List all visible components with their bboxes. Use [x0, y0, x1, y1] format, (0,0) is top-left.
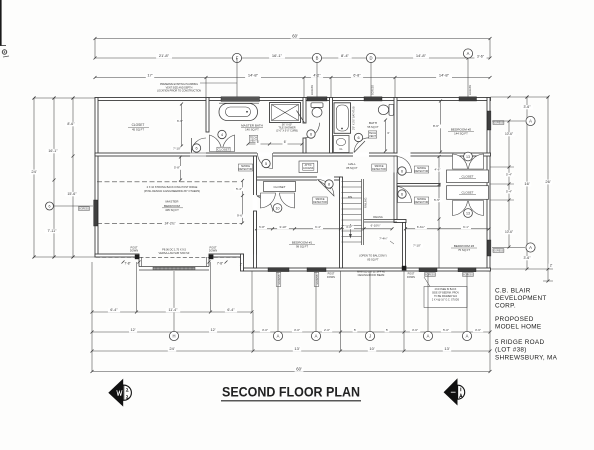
- window bottom bedroom1 E: [307, 268, 326, 272]
- bottom dim row B: [92, 331, 490, 333]
- left wall window: [94, 200, 98, 226]
- svg-text:3'0" X 5'0" BATHTUB: 3'0" X 5'0" BATHTUB: [353, 106, 356, 130]
- master bedroom dim 5-8 upper: [180, 157, 182, 180]
- egress label bottom b1W: [276, 272, 281, 286]
- svg-text:A: A: [466, 334, 469, 339]
- bedroom3 interior dim row: [406, 228, 490, 230]
- svg-text:DETECTOR: DETECTOR: [415, 201, 429, 204]
- leader row3 ticks to wall: [205, 78, 207, 98]
- master tub outer: [219, 104, 258, 121]
- window top D: [364, 97, 382, 101]
- smoke detector hall east: [372, 164, 386, 171]
- closet door arc from closet room: [192, 138, 207, 153]
- left dim connector bottom: [34, 256, 95, 258]
- bedroom3 west wall: [403, 223, 406, 269]
- svg-text:2': 2': [550, 264, 553, 268]
- bedroom1 east wall / stair wall: [340, 177, 343, 268]
- egress label right bedroom3: [493, 249, 504, 253]
- svg-text:16': 16': [524, 181, 529, 186]
- svg-text:6: 6: [401, 192, 403, 196]
- svg-text:60': 60': [296, 366, 302, 371]
- svg-text:ACCESS: ACCESS: [303, 167, 314, 170]
- svg-text:10'-6": 10'-6": [505, 132, 513, 136]
- svg-text:24'-2¾": 24'-2¾": [165, 222, 176, 226]
- svg-text:5'-5": 5'-5": [434, 198, 440, 202]
- svg-text:4'-6": 4'-6": [435, 167, 441, 171]
- master closet fan circle 4: [218, 130, 226, 138]
- svg-text:7'-8": 7'-8": [124, 262, 130, 266]
- svg-text:16'-1": 16'-1": [272, 53, 283, 58]
- svg-text:EGRESS: EGRESS: [372, 85, 375, 95]
- right closet dim connectors: [491, 166, 515, 168]
- post black square bedroom3 corner: [402, 266, 407, 271]
- bay window side left inner: [141, 257, 143, 267]
- svg-text:BEDROOM: BEDROOM: [164, 204, 180, 208]
- wc west divider wall upper: [303, 98, 306, 124]
- svg-text:8: 8: [328, 182, 330, 186]
- bedroom3 upper door circle 6: [398, 190, 406, 198]
- svg-text:(OPEN TO BALCONY): (OPEN TO BALCONY): [359, 254, 386, 258]
- bottom leader x403: [403, 271, 405, 351]
- bedroom1 closet label box: [264, 182, 296, 192]
- bay window front lines: [139, 266, 209, 268]
- svg-text:12': 12': [131, 328, 136, 332]
- svg-text:6'-4": 6'-4": [227, 308, 235, 312]
- hall bottom wall: [254, 177, 341, 180]
- stair right rail: [361, 179, 363, 245]
- svg-text:CLOSET: CLOSET: [217, 148, 229, 152]
- master wc toilet bowl: [312, 108, 322, 118]
- bedroom1 smoke detector: [313, 197, 327, 204]
- svg-text:144 SQ FT: 144 SQ FT: [454, 132, 468, 136]
- svg-text:MAIN (2) 2 X 12 SPF #2: MAIN (2) 2 X 12 SPF #2: [357, 270, 386, 274]
- bedroom1 closet fan doors: [261, 193, 276, 208]
- svg-text:3'-10": 3'-10": [279, 225, 286, 229]
- svg-text:CEILING/ROOF BEAM: CEILING/ROOF BEAM: [358, 273, 385, 277]
- right dim bottom connectors: [491, 268, 554, 270]
- svg-text:6: 6: [401, 169, 403, 173]
- svg-text:A: A: [315, 334, 318, 339]
- svg-text:99 SQ FT: 99 SQ FT: [296, 245, 308, 249]
- svg-text:C.B. BLAIR: C.B. BLAIR: [495, 288, 531, 295]
- row2 circle B: [312, 53, 321, 62]
- svg-text:24': 24': [169, 346, 174, 351]
- bottom leader x253 long: [252, 312, 254, 351]
- svg-text:3'-6": 3'-6": [524, 105, 532, 109]
- svg-text:6: 6: [310, 132, 312, 136]
- svg-text:15'-6": 15'-6": [67, 192, 77, 196]
- master closet fan doors: [210, 135, 222, 152]
- bottom leader bay center: [173, 271, 175, 332]
- master bedroom lower dashed dim: [97, 222, 242, 224]
- svg-text:3'-6": 3'-6": [477, 54, 485, 58]
- hall bath toilet bowl: [378, 105, 388, 115]
- bedroom1 west wall lower: [254, 211, 257, 268]
- svg-text:8'-6": 8'-6": [67, 122, 75, 126]
- exterior wall right: [487, 98, 490, 272]
- left dim 24ft: [33, 98, 35, 257]
- svg-text:EGRESS: EGRESS: [311, 85, 314, 95]
- window right bedroom2: [487, 111, 491, 130]
- svg-text:4'-2": 4'-2": [313, 74, 321, 78]
- bay window side right: [208, 257, 210, 267]
- svg-text:SHREWSBURY, MA: SHREWSBURY, MA: [495, 355, 558, 362]
- svg-text:VENT: VENT: [369, 134, 376, 138]
- bottom dim row D 60ft: [92, 371, 490, 373]
- svg-text:DOWN: DOWN: [407, 276, 415, 279]
- svg-text:A: A: [277, 334, 280, 339]
- row B circle A1: [273, 331, 282, 340]
- bay window side right inner: [206, 257, 208, 267]
- right dim connector top: [491, 96, 550, 98]
- svg-text:14'-8": 14'-8": [248, 73, 259, 78]
- svg-text:EGRESS: EGRESS: [425, 273, 435, 276]
- svg-text:EGRESS: EGRESS: [494, 121, 504, 124]
- bedroom1 entry door arc: [257, 196, 273, 212]
- bottom leader x340: [340, 271, 342, 351]
- svg-text:6': 6': [257, 140, 260, 144]
- svg-text:DETECTOR: DETECTOR: [415, 170, 429, 173]
- bedroom2 door arc: [398, 157, 412, 173]
- bottom leader b3 window W: [427, 273, 429, 332]
- svg-text:EGRESS: EGRESS: [316, 274, 319, 284]
- left dim col2: [53, 98, 55, 257]
- hall east wall: [394, 156, 397, 223]
- svg-text:A: A: [467, 51, 470, 56]
- row2 circle A: [463, 49, 472, 58]
- svg-text:13': 13': [444, 346, 449, 351]
- hall bath toilet tank: [389, 104, 394, 115]
- bedroom2 interior dim 8-6: [440, 101, 442, 152]
- hall bath tub drain: [341, 128, 343, 130]
- master wc toilet tank: [311, 103, 323, 108]
- window bottom bedroom3 W: [419, 268, 437, 272]
- svg-text:A: A: [529, 245, 532, 250]
- svg-text:3'-6": 3'-6": [475, 328, 481, 332]
- svg-text:14'-8": 14'-8": [439, 73, 450, 78]
- bottom leader x490: [489, 271, 491, 372]
- smoke detector SE room: [414, 197, 428, 204]
- svg-text:D: D: [369, 56, 372, 61]
- dim 5-5 SE room: [432, 198, 442, 202]
- smoke detector hall west: [238, 164, 252, 171]
- svg-text:(LOT #38): (LOT #38): [495, 347, 527, 354]
- svg-text:3'-0": 3'-0": [294, 328, 300, 332]
- left dim col3: [72, 98, 74, 257]
- svg-text:7'-10": 7'-10": [413, 243, 421, 247]
- svg-text:3'-6": 3'-6": [524, 256, 532, 260]
- row B circle A3: [423, 331, 432, 340]
- hall bath 6ft dim: [385, 120, 387, 151]
- master bedroom east dims: [242, 181, 244, 224]
- svg-text:A: A: [529, 119, 532, 124]
- right closet box 1: [447, 170, 489, 183]
- right circle A lower: [492, 247, 525, 249]
- mid horizontal wall (bath band bottom): [95, 153, 491, 156]
- svg-text:5: 5: [265, 162, 267, 166]
- smoke detector NE room: [414, 166, 428, 173]
- svg-text:LOCATION PRIOR TO CONSTRUCTION: LOCATION PRIOR TO CONSTRUCTION: [157, 90, 201, 93]
- master tub inner: [226, 107, 251, 117]
- master closet dim 6-6: [175, 120, 185, 124]
- bay window sash: [153, 267, 195, 270]
- post down left black square: [135, 255, 140, 260]
- svg-text:2'-0": 2'-0": [324, 328, 330, 332]
- tile shower X: [272, 105, 299, 121]
- svg-text:6'-4": 6'-4": [315, 225, 321, 229]
- svg-text:140 SQ FT: 140 SQ FT: [245, 128, 259, 132]
- svg-text:5 RIDGE ROAD: 5 RIDGE ROAD: [495, 339, 544, 346]
- exterior bottom wall: [244, 268, 491, 271]
- bottom leader b1 window E: [315, 272, 317, 332]
- leader row2 D to window: [370, 62, 372, 97]
- master bedroom ridge dashed line: [97, 181, 238, 183]
- svg-text:9'-6": 9'-6": [237, 214, 243, 218]
- tile shower outer: [270, 103, 301, 123]
- svg-text:RAILING: RAILING: [373, 216, 383, 219]
- row2 circle F: [232, 53, 241, 62]
- hall bath door circle 6: [354, 133, 362, 141]
- wall opening master closet door: [190, 152, 206, 157]
- master wc door circle 6: [307, 130, 315, 138]
- attic access box: [299, 161, 318, 173]
- closet door circle 6: [192, 144, 200, 152]
- svg-text:4: 4: [221, 133, 223, 137]
- svg-text:55 SQ FT: 55 SQ FT: [367, 125, 379, 129]
- svg-text:5'-4": 5'-4": [506, 189, 512, 193]
- svg-text:6'-8": 6'-8": [353, 74, 361, 78]
- bath east / bedroom2 west wall: [394, 98, 397, 154]
- row B circle A4: [462, 331, 471, 340]
- svg-text:3'-0": 3'-0": [262, 328, 268, 332]
- svg-text:6'-6¾": 6'-6¾": [417, 225, 425, 229]
- dim 7-10 near closet: [171, 147, 183, 151]
- bottom leader bay post E: [210, 262, 212, 312]
- svg-text:60': 60': [292, 33, 298, 38]
- svg-text:BATH: BATH: [369, 121, 377, 125]
- svg-text:13: 13: [466, 155, 470, 159]
- svg-text:14'-8": 14'-8": [416, 53, 427, 58]
- bedroom1 closet circle 10: [273, 204, 282, 213]
- wall opening hall door west: [257, 152, 273, 157]
- stair down arrow: [349, 224, 351, 237]
- svg-text:EGRESS: EGRESS: [494, 249, 504, 252]
- svg-text:VERSA-LAM SJB 7200 SF: VERSA-LAM SJB 7200 SF: [159, 251, 190, 255]
- hall-bedroom1 door circle 8: [325, 180, 333, 188]
- dim 7-10 bedroom3: [411, 244, 423, 248]
- master bedroom bottom wall left of bay: [95, 254, 139, 257]
- master tub drain: [246, 111, 248, 113]
- closet/masterbath divider wall: [206, 98, 209, 133]
- svg-text:10: 10: [276, 206, 280, 210]
- dim 4-6 NE room: [432, 168, 442, 172]
- right closet box 2: [447, 186, 489, 200]
- svg-text:EGRESS: EGRESS: [278, 274, 281, 284]
- svg-text:5'-4": 5'-4": [506, 172, 512, 176]
- svg-text:CLOSET: CLOSET: [461, 191, 473, 195]
- svg-text:PROPOSED: PROPOSED: [495, 316, 534, 323]
- svg-text:16'-1": 16'-1": [48, 149, 58, 153]
- bottom dim row A: [92, 311, 252, 313]
- svg-text:DOWN: DOWN: [130, 249, 138, 253]
- svg-text:85 SQ FT: 85 SQ FT: [367, 257, 379, 261]
- wall opening bedroom2 door: [398, 152, 411, 157]
- svg-text:CLOSET: CLOSET: [132, 123, 145, 127]
- bedroom3 kneewall note: [424, 287, 467, 308]
- svg-text:6'-6": 6'-6": [177, 119, 183, 123]
- svg-text:10'-6": 10'-6": [505, 230, 513, 234]
- egress label bottom b1E: [314, 272, 319, 286]
- master bedroom east wall door opening: [253, 195, 258, 211]
- svg-text:8'-6": 8'-6": [433, 124, 439, 128]
- right circle A upper: [492, 120, 525, 122]
- window top B: [307, 97, 327, 101]
- svg-text:DETECTOR: DETECTOR: [239, 168, 253, 171]
- master wc door arc: [305, 123, 320, 138]
- section marker left circle: [116, 385, 131, 400]
- right dim col 10-6: [508, 121, 510, 247]
- svg-text:13: 13: [466, 211, 470, 215]
- svg-text:EGRESS: EGRESS: [79, 207, 89, 210]
- svg-text:5'-8": 5'-8": [174, 166, 180, 170]
- egress label right bedroom2: [493, 121, 504, 125]
- svg-text:CLOSET: CLOSET: [461, 175, 473, 179]
- hall bath door arc: [354, 138, 369, 153]
- svg-text:J: J: [369, 334, 371, 339]
- stair treads: [342, 181, 362, 183]
- hall bath vanity: [334, 136, 350, 153]
- svg-text:(POSL DESIGN & ENGINEERING BY: (POSL DESIGN & ENGINEERING BY OTHERS): [144, 189, 200, 193]
- top dim row 60ft: [95, 38, 490, 40]
- svg-text:H: H: [172, 334, 175, 339]
- svg-text:85 SQ FT: 85 SQ FT: [346, 166, 358, 170]
- svg-text:DOWN: DOWN: [209, 249, 217, 253]
- svg-text:12': 12': [211, 328, 216, 332]
- exterior wall left: [95, 98, 98, 258]
- closet column line: [438, 156, 440, 268]
- svg-text:5'-4": 5'-4": [236, 187, 242, 191]
- bottom leader x252: [251, 271, 253, 312]
- svg-text:CL: CL: [339, 147, 343, 151]
- left window leader circle: [54, 205, 93, 207]
- svg-text:75 SQ FT: 75 SQ FT: [458, 248, 470, 252]
- left wall egress label: [79, 207, 90, 211]
- svg-text:DN: DN: [348, 195, 352, 199]
- tile shower inner: [272, 105, 299, 121]
- master bath tech vent box: [249, 135, 257, 142]
- svg-text:45 SQ FT: 45 SQ FT: [132, 128, 144, 132]
- hall bottom wall door opening: [317, 176, 334, 181]
- bottom leader x92: [91, 262, 93, 372]
- svg-text:5'-8": 5'-8": [259, 225, 265, 229]
- svg-text:7'-10": 7'-10": [173, 146, 181, 150]
- balcony rail: [364, 219, 397, 221]
- step wall at master bedroom SE corner: [241, 254, 244, 271]
- right closet fan doors lower: [453, 201, 468, 216]
- svg-text:13': 13': [294, 346, 299, 351]
- svg-text:3'-6": 3'-6": [412, 328, 418, 332]
- right closet circle 13 lower: [464, 209, 473, 218]
- bottom leader b1 window W: [277, 272, 279, 332]
- dim 7-4 note: [377, 237, 389, 241]
- window top A: [459, 97, 477, 101]
- svg-text:405 SQ FT: 405 SQ FT: [165, 208, 179, 212]
- tub platform against wall: [221, 97, 260, 102]
- bedroom2 door circle 6: [398, 167, 406, 175]
- row B circle J: [365, 331, 374, 340]
- svg-text:CLOSET: CLOSET: [273, 185, 285, 189]
- hall bath tub outer: [334, 103, 351, 134]
- exterior wall top: [95, 98, 491, 101]
- wall opening bath door: [353, 152, 369, 157]
- section marker right triangle: [444, 378, 458, 405]
- hall door west circle 5: [262, 159, 270, 167]
- master bath 6ft dims: [248, 143, 302, 145]
- svg-text:10': 10': [369, 346, 374, 351]
- svg-text:2': 2': [240, 263, 243, 267]
- bedroom3 upper door arc: [398, 187, 412, 203]
- svg-text:EGRESS: EGRESS: [463, 273, 473, 276]
- hall east wall door opening: [393, 157, 398, 173]
- svg-text:7'-11": 7'-11": [48, 229, 58, 233]
- section marker right circle: [451, 385, 465, 399]
- master bedroom bottom wall right of bay: [209, 254, 244, 257]
- svg-text:8'-4": 8'-4": [341, 53, 350, 58]
- jog wall to bedroom3: [394, 220, 406, 223]
- svg-text:DETECTOR: DETECTOR: [372, 168, 386, 171]
- svg-text:11'-4": 11'-4": [169, 308, 179, 312]
- svg-text:EGRESS: EGRESS: [469, 85, 472, 95]
- row B circle H: [169, 331, 178, 340]
- bottom dim row C: [92, 350, 490, 352]
- row2 circle D: [366, 53, 375, 62]
- svg-text:B: B: [316, 56, 319, 61]
- right dim col 26ft: [547, 97, 549, 281]
- svg-text:MODEL HOME: MODEL HOME: [495, 324, 541, 331]
- bottom leader bay post W: [136, 262, 138, 312]
- svg-text:DEVELOPMENT: DEVELOPMENT: [495, 295, 547, 302]
- leader row2 A to window: [467, 58, 469, 97]
- scan edge mark top-left: [0, 0, 2, 46]
- master closet label box: [217, 147, 230, 151]
- svg-text:HALL: HALL: [348, 162, 356, 166]
- svg-text:6'-10½": 6'-10½": [371, 224, 381, 228]
- wc west divider wall lower: [303, 138, 306, 153]
- hall bath tech vent box: [368, 131, 376, 138]
- post down right black square: [209, 255, 214, 260]
- svg-text:(3'-0" X 5'-0" CURB): (3'-0" X 5'-0" CURB): [276, 129, 298, 132]
- section marker left triangle: [108, 379, 123, 407]
- svg-text:24': 24': [31, 169, 36, 174]
- top dim row 2: [95, 57, 490, 59]
- svg-text:DOWN: DOWN: [327, 276, 335, 279]
- hall-bedroom1 door arc: [318, 180, 335, 197]
- right closet fan doors upper: [453, 154, 468, 169]
- svg-text:6: 6: [357, 136, 359, 140]
- window bottom bedroom1 W: [268, 268, 289, 272]
- right dim col 16ft: [526, 97, 528, 269]
- svg-text:6': 6': [284, 140, 287, 144]
- bottom leader balcony: [369, 271, 371, 332]
- svg-text:6'-4": 6'-4": [110, 308, 118, 312]
- svg-text:DETECTOR: DETECTOR: [313, 201, 327, 204]
- svg-text:RAILING: RAILING: [364, 198, 368, 208]
- svg-text:21'-8": 21'-8": [159, 53, 170, 58]
- svg-text:7'-8": 7'-8": [217, 262, 223, 266]
- master bedroom east wall: [254, 156, 257, 254]
- smoke rooms divider wall: [397, 184, 440, 187]
- bottom leader b3 window E: [466, 273, 468, 332]
